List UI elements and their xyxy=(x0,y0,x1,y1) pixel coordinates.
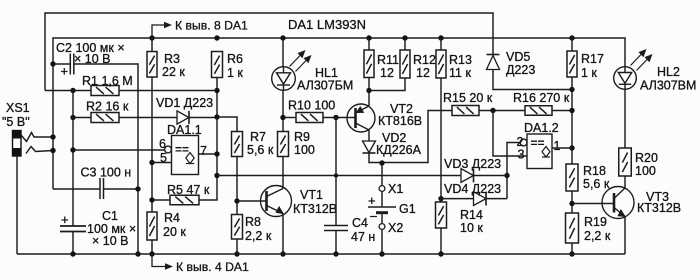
wire C4 column xyxy=(335,118,337,226)
node R16 join xyxy=(569,108,574,113)
svg-text:× 10 В: × 10 В xyxy=(74,52,111,66)
svg-text:R18: R18 xyxy=(583,164,606,178)
svg-text:1 к: 1 к xyxy=(227,66,243,80)
wire pin3 column xyxy=(493,111,527,157)
svg-text:Д223: Д223 xyxy=(506,63,535,77)
svg-text:КТ816В: КТ816В xyxy=(378,114,422,128)
svg-text:XS1: XS1 xyxy=(6,101,30,115)
wire VD5 anode down and right to R17 column xyxy=(493,70,572,90)
wire R1 left lead xyxy=(73,90,91,92)
svg-text:R3: R3 xyxy=(164,52,180,66)
transistor VT3 xyxy=(602,187,634,219)
wire R16 right lead xyxy=(552,110,572,112)
wire R11 top lead xyxy=(368,38,370,50)
wire R9 to VT1 collector xyxy=(282,157,284,189)
wire XS1 upper contact xyxy=(21,133,53,142)
svg-text:X2: X2 xyxy=(388,221,403,235)
node divider to pin5 xyxy=(149,160,154,165)
wire R12 top lead xyxy=(404,38,406,50)
node XS1 lower contact join xyxy=(50,148,55,153)
svg-text:R4: R4 xyxy=(164,211,180,225)
wire R17 top lead xyxy=(571,38,573,51)
resistor R10 xyxy=(296,113,323,123)
node C1 ground xyxy=(70,251,75,256)
wire R12 bottom L to VT2 emitter node xyxy=(369,78,405,91)
svg-text:==: == xyxy=(531,136,545,150)
wire R2 right to VD1 xyxy=(119,117,177,119)
node pin3 junction xyxy=(490,108,495,113)
wire R17 column xyxy=(571,77,573,164)
resistor R8 xyxy=(232,215,243,240)
capacitor C1 xyxy=(60,226,86,232)
svg-text:R6: R6 xyxy=(227,52,243,66)
node output join R1 xyxy=(214,88,219,93)
svg-text:R19: R19 xyxy=(584,215,607,229)
capacitor C2 xyxy=(70,54,74,75)
diode VD1 xyxy=(177,111,189,124)
svg-text:3: 3 xyxy=(518,148,525,162)
wire left frame to R1 node xyxy=(45,90,73,92)
svg-text:C3 100 н: C3 100 н xyxy=(81,166,132,180)
wire VT1 emitter to ground xyxy=(282,214,284,255)
svg-text:10 к: 10 к xyxy=(460,221,483,235)
op-amp comparator DA1.2 xyxy=(520,134,552,169)
svg-text:C4: C4 xyxy=(352,216,368,230)
node C3 right on ground bus xyxy=(135,186,140,191)
svg-text:2,2 к: 2,2 к xyxy=(584,229,611,243)
svg-text:R11: R11 xyxy=(377,53,399,67)
LED HL1 arrows xyxy=(290,51,311,72)
wire R18 to R19 xyxy=(571,191,573,213)
wire R7 branch xyxy=(217,117,237,132)
svg-text:VD1 Д223: VD1 Д223 xyxy=(156,96,213,110)
terminal X1 xyxy=(379,186,385,192)
node battery ground xyxy=(379,251,384,256)
resistor R18 xyxy=(566,164,578,191)
svg-text:R8: R8 xyxy=(245,215,261,229)
svg-text:АЛ307ВМ: АЛ307ВМ xyxy=(640,79,696,93)
wire R5 right lead to output column xyxy=(199,78,217,201)
wire VD2 to battery and R15 xyxy=(369,111,452,163)
node VT1 emitter ground xyxy=(280,251,285,256)
wire R2 left lead xyxy=(73,117,91,119)
node XS1 upper contact join xyxy=(50,134,55,139)
node R12 top xyxy=(402,35,407,40)
wire ground rail xyxy=(17,253,625,255)
resistor R19 xyxy=(566,213,579,243)
wire +5V column through R1 R2 pin6 taps xyxy=(72,91,74,227)
wire R10 right to VT2 base xyxy=(323,117,355,119)
wire VT3 base xyxy=(572,203,614,205)
node battery tap xyxy=(379,160,384,165)
terminal X2 xyxy=(379,224,385,230)
resistor R11 xyxy=(364,50,374,78)
wire HL1 top lead xyxy=(282,38,284,67)
wire R13 column to R14 xyxy=(440,78,442,202)
transistor VT2 xyxy=(347,104,375,132)
svg-text:==: == xyxy=(175,143,189,157)
node output join VD3 wire xyxy=(214,173,219,178)
wire VD4 anode xyxy=(441,198,474,200)
svg-text:VD3 Д223: VD3 Д223 xyxy=(444,157,501,171)
comparator DA1.1 open collector symbol xyxy=(186,153,194,164)
wire XS1 lower contact xyxy=(26,147,53,154)
wire C2 right to ground bus xyxy=(74,64,138,254)
node DA1.2 output join xyxy=(569,145,574,150)
wire X1 lead xyxy=(381,163,383,186)
node K vyv.8 DA1 arrow stub xyxy=(152,25,166,38)
svg-text:VD4 Д223: VD4 Д223 xyxy=(444,182,501,196)
resistor R14 xyxy=(436,202,447,228)
wire R14 bottom xyxy=(440,228,442,254)
wire R15 to R16 xyxy=(479,110,525,112)
svg-text:X1: X1 xyxy=(388,182,403,196)
svg-text:2,2 к: 2,2 к xyxy=(245,229,272,243)
svg-text:R16 270 к: R16 270 к xyxy=(513,91,570,105)
svg-text:R15 20 к: R15 20 к xyxy=(443,91,493,105)
svg-text:7: 7 xyxy=(200,144,207,158)
node R8 ground xyxy=(234,251,239,256)
resistor R9 xyxy=(278,132,289,157)
svg-text:R5 47 к: R5 47 к xyxy=(167,183,210,197)
svg-text:1 к: 1 к xyxy=(581,66,597,80)
wire HL1 to R9 xyxy=(282,90,284,131)
svg-text:R13: R13 xyxy=(449,53,472,67)
svg-text:G1: G1 xyxy=(399,202,416,216)
svg-text:+: + xyxy=(61,64,69,79)
wire R10 left lead xyxy=(283,117,296,119)
svg-text:VD5: VD5 xyxy=(506,50,530,64)
resistor R13 xyxy=(436,50,446,78)
svg-text:6: 6 xyxy=(159,137,166,151)
wire battery to X2 xyxy=(381,214,383,223)
svg-text:12: 12 xyxy=(416,66,430,80)
wire R7 to R8 xyxy=(236,157,238,215)
wire top supply rail from left frame to VD5 column xyxy=(45,13,493,91)
wire R11 bottom to VT2 xyxy=(368,78,370,107)
wire X2 to ground xyxy=(381,229,383,254)
node R1 left junction xyxy=(70,88,75,93)
wire VD4 cathode to pin2 column xyxy=(487,198,508,200)
svg-text:HL2: HL2 xyxy=(657,65,680,79)
capacitor C4 xyxy=(324,226,348,231)
svg-text:11 к: 11 к xyxy=(449,66,471,80)
node VD4 tap on R13 column xyxy=(438,196,443,201)
svg-text:R9: R9 xyxy=(294,130,310,144)
LED HL2 xyxy=(614,67,637,90)
connector XS1 plug body xyxy=(13,131,22,157)
svg-text:R10 100: R10 100 xyxy=(288,99,335,113)
node ground bus at rail xyxy=(135,251,140,256)
resistor R17 xyxy=(567,51,577,77)
resistor R2 xyxy=(91,113,119,123)
svg-text:КТ312В: КТ312В xyxy=(637,201,681,215)
wire C1 bottom lead xyxy=(72,232,74,255)
resistor R4 xyxy=(147,212,157,240)
wire R3 top lead xyxy=(151,38,153,52)
wire R5 left lead xyxy=(152,199,170,201)
node R17 top xyxy=(569,35,574,40)
wire VD3 cathode to pin2 column xyxy=(474,175,507,177)
node R17 VD5 join xyxy=(569,87,574,92)
comparator DA1.2 open collector symbol xyxy=(542,147,550,158)
node R5 left junction xyxy=(149,197,154,202)
wire R13 top lead xyxy=(440,38,442,50)
node R6 top on Vcc rail xyxy=(214,35,219,40)
svg-text:КТ312В: КТ312В xyxy=(293,202,337,216)
svg-text:22 к: 22 к xyxy=(162,65,185,79)
node VD3 join pin2 column xyxy=(504,173,509,178)
node VT2 emitter join xyxy=(366,88,371,93)
svg-text:R2 16 к: R2 16 к xyxy=(86,100,129,114)
LED HL1 xyxy=(272,67,296,91)
svg-text:12: 12 xyxy=(380,66,394,80)
node VT1 base junction xyxy=(234,198,239,203)
diode VD2 xyxy=(363,141,376,153)
svg-text:DA1 LM393N: DA1 LM393N xyxy=(288,17,366,32)
wire R3 bottom to R4 xyxy=(151,77,153,212)
resistor R5 xyxy=(170,195,199,205)
wire C2 left lead xyxy=(53,63,70,65)
wire R20 to VT3 collector xyxy=(624,176,626,188)
node VT2 base R10 C4 junction xyxy=(333,115,338,120)
node R13 top xyxy=(438,35,443,40)
wire R4 bottom lead xyxy=(151,240,153,254)
wire VT3 emitter to ground rail xyxy=(624,217,626,255)
wire VT2 collector to VD2 xyxy=(368,130,370,141)
node output join pin7 xyxy=(214,151,219,156)
node HL1 top on Vcc rail xyxy=(280,35,285,40)
resistor R3 xyxy=(147,52,157,78)
node R14 ground xyxy=(438,251,443,256)
transistor VT1 xyxy=(261,186,292,217)
svg-text:R17: R17 xyxy=(581,52,604,66)
node R4 ground xyxy=(149,251,154,256)
diode VD3 xyxy=(461,169,474,183)
wire C4 bottom lead xyxy=(335,231,337,255)
svg-text:5,6 к: 5,6 к xyxy=(247,143,274,157)
svg-text:1: 1 xyxy=(554,139,561,153)
resistor R15 xyxy=(452,106,479,116)
wire R8 bottom lead xyxy=(236,239,238,254)
svg-text:К выв. 8 DA1: К выв. 8 DA1 xyxy=(175,19,248,33)
svg-text:R14: R14 xyxy=(460,208,483,222)
svg-text:+: + xyxy=(368,193,376,208)
node R19 ground xyxy=(569,251,574,256)
svg-text:100: 100 xyxy=(635,164,656,178)
node C4 crosses VD3 wire xyxy=(334,173,338,177)
wire DA1.2 pin1 output xyxy=(552,147,572,149)
svg-text:АЛ307БМ: АЛ307БМ xyxy=(297,79,353,93)
wire DA1.1 pin 5 xyxy=(152,162,172,164)
svg-text:R1 1,6 М: R1 1,6 М xyxy=(82,74,133,88)
wire Vcc rail (pin 8 DA1) xyxy=(53,38,625,189)
svg-text:R7: R7 xyxy=(250,130,266,144)
wire output node to VD3 xyxy=(217,175,461,177)
resistor R20 xyxy=(619,148,632,176)
svg-text:DA1.2: DA1.2 xyxy=(524,121,559,135)
resistor R7 xyxy=(232,132,243,157)
svg-text:C1: C1 xyxy=(102,209,118,223)
capacitor C3 xyxy=(100,178,104,199)
svg-text:5: 5 xyxy=(160,151,167,165)
resistor R6 xyxy=(212,52,223,78)
LED HL2 arrows xyxy=(631,50,652,71)
svg-text:R20: R20 xyxy=(635,151,658,165)
op-amp comparator DA1.1 xyxy=(165,136,199,175)
diode VD4 xyxy=(474,192,487,206)
svg-text:5,6 к: 5,6 к xyxy=(583,177,610,191)
wire R19 bottom xyxy=(571,243,573,254)
wire DA1.1 pin 6 xyxy=(73,149,165,151)
svg-text:100: 100 xyxy=(294,143,315,157)
wire C3 right lead xyxy=(104,188,139,190)
diode VD5 xyxy=(487,55,500,70)
wire VT1 base xyxy=(237,200,267,202)
node output join VD1 R7 xyxy=(214,114,219,119)
wire HL2 to R20 xyxy=(624,89,626,148)
svg-text:R12: R12 xyxy=(413,53,436,67)
svg-text:+: + xyxy=(61,212,69,227)
resistor R12 xyxy=(400,50,410,78)
resistor R16 xyxy=(525,106,552,116)
node VT3 base junction xyxy=(569,201,574,206)
node C2 left junction xyxy=(50,61,55,66)
svg-text:К выв. 4 DA1: К выв. 4 DA1 xyxy=(176,260,249,274)
node R10 tap xyxy=(280,115,285,120)
battery G1 xyxy=(368,207,396,217)
node R3 top on Vcc rail xyxy=(149,35,154,40)
svg-text:КД226А: КД226А xyxy=(376,143,422,157)
wire X1 to battery xyxy=(381,191,383,206)
node pin6 wire tap xyxy=(70,147,75,152)
svg-text:20 к: 20 к xyxy=(163,225,186,239)
svg-text:47 н: 47 н xyxy=(351,230,375,244)
node K vyv.4 DA1 arrow stub xyxy=(152,254,167,267)
svg-text:"5 В": "5 В" xyxy=(2,115,30,129)
wire XS1 ground lead xyxy=(16,156,18,254)
node R2 left junction xyxy=(70,115,75,120)
wire pin2 column xyxy=(507,143,520,199)
wire VD1 cathode to output column xyxy=(189,117,217,119)
svg-text:× 10 В: × 10 В xyxy=(92,234,129,248)
node C4 ground xyxy=(333,251,338,256)
svg-text:VT1: VT1 xyxy=(300,188,323,202)
wire C3 left lead xyxy=(53,188,100,190)
wire DA1.1 pin 7 output xyxy=(199,153,218,155)
svg-text:DA1.1: DA1.1 xyxy=(167,123,202,137)
wire R1 right to output column xyxy=(119,90,217,92)
node R11 top xyxy=(366,35,371,40)
resistor R1 xyxy=(91,86,119,96)
